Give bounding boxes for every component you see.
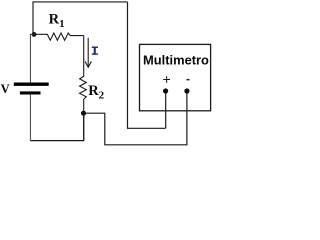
minus terminal sign bbox=[186, 79, 189, 81]
wire multimeter plus terminal down bbox=[165, 91, 167, 128]
node B junction dot bbox=[81, 111, 86, 116]
svg-text:Multimetro: Multimetro bbox=[143, 52, 209, 67]
battery V positive plate bbox=[14, 83, 49, 86]
svg-text:V: V bbox=[1, 82, 10, 96]
svg-text:R2: R2 bbox=[88, 83, 104, 101]
wire R2 bottom to node B bbox=[83, 99, 85, 141]
wire node A to battery top bbox=[30, 34, 33, 82]
battery V negative plate bbox=[20, 91, 41, 94]
plus terminal dot bbox=[163, 88, 168, 93]
wire top horizontal bbox=[33, 2, 128, 35]
node A junction dot bbox=[32, 32, 37, 37]
wire R1 output down to R2 bbox=[83, 36, 85, 77]
resistor R2 bbox=[80, 76, 87, 99]
multimeter box bbox=[140, 44, 211, 110]
resistor R1 bbox=[34, 33, 84, 40]
current arrow I bbox=[87, 38, 89, 66]
wire riser from top wire down to multimeter plus lead bbox=[128, 2, 166, 128]
wire battery bottom down bbox=[29, 95, 31, 141]
wire node B to multimeter minus terminal bbox=[84, 91, 187, 145]
wire bottom horizontal battery to node below R2 bbox=[30, 113, 83, 140]
svg-text:R1: R1 bbox=[49, 12, 65, 30]
minus terminal dot bbox=[184, 88, 189, 93]
label I bbox=[92, 47, 98, 55]
svg-text:+: + bbox=[163, 72, 171, 87]
